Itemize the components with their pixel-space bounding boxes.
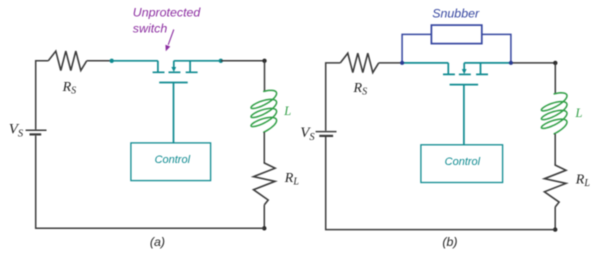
wire: (b) left vertical + top segment to resistor [326, 63, 341, 131]
resistor RL (b) [544, 164, 566, 208]
annotation arrow to switch [165, 30, 173, 52]
wire: (a) top-right corner down to inductor [264, 61, 266, 92]
svg-text:Control: Control [155, 154, 191, 166]
node: junction right of switch (a) [219, 59, 223, 63]
node: top-right corner (b) [553, 61, 557, 65]
wire: (a) inductor to RL [263, 132, 265, 161]
node: bottom-right corner (b) [553, 227, 557, 231]
svg-text:Snubber: Snubber [432, 7, 480, 21]
svg-text:VS: VS [300, 125, 315, 143]
transistor switch Q2 (b) [443, 63, 488, 85]
wire: (a) left vertical + top segment to resistor [36, 61, 49, 130]
node: snubber left junction [400, 61, 404, 65]
svg-text:Control: Control [445, 156, 481, 168]
control box U2 (b) [421, 145, 503, 183]
resistor RS (b) [340, 53, 378, 72]
wire: (a) resistor to left node [87, 60, 112, 62]
wire: snubber right lead [482, 34, 511, 63]
node: junction left of switch (a) [110, 59, 114, 63]
battery VS (a) [26, 130, 47, 134]
control box U1 (a) [131, 143, 211, 181]
wire: (a) bottom return [36, 136, 265, 229]
wire: (a) RL to bottom-right corner [263, 205, 265, 228]
wire: (b) gate to control box [463, 84, 465, 145]
battery VS (b) [316, 132, 337, 136]
wire: (b) snubber node to switch drain [402, 62, 448, 64]
wire: (b) switch source to right snubber node [464, 62, 511, 64]
wire: (b) bottom return [326, 137, 556, 230]
snubber box [431, 25, 481, 43]
wire: snubber left lead [402, 34, 431, 63]
wire: (b) inductor to RL [554, 134, 556, 164]
wire: (b) top-right corner down to inductor [554, 63, 556, 94]
node: bottom-right corner (a) [262, 226, 266, 230]
resistor RS (a) [48, 51, 86, 70]
transistor switch Q1 (a) [153, 61, 198, 83]
svg-text:RS: RS [62, 80, 77, 97]
svg-text:L: L [283, 104, 291, 118]
svg-text:RL: RL [575, 173, 591, 190]
svg-text:Unprotectedswitch: Unprotectedswitch [133, 5, 202, 35]
wire: (b) resistor to snubber node [379, 62, 402, 64]
wire: (a) left node to switch drain [112, 60, 158, 62]
wire: (a) switch source to right node [174, 60, 221, 62]
svg-text:(a): (a) [150, 235, 165, 249]
svg-text:RL: RL [284, 171, 300, 188]
node: snubber right junction [509, 61, 513, 65]
inductor L (b) [541, 93, 567, 134]
wire: (a) right node to top-right corner [221, 60, 265, 62]
inductor L (a) [251, 90, 277, 132]
node: top-right corner (a) [262, 59, 266, 63]
resistor RL (a) [254, 161, 276, 205]
svg-text:VS: VS [9, 122, 24, 140]
svg-text:(b): (b) [442, 235, 457, 249]
wire: (a) gate to control box [173, 83, 175, 143]
wire: (b) right snubber node to top-right corner [511, 62, 555, 64]
svg-text:RS: RS [353, 81, 368, 98]
wire: (b) RL to bottom-right corner [554, 207, 556, 230]
svg-text:L: L [575, 106, 583, 120]
